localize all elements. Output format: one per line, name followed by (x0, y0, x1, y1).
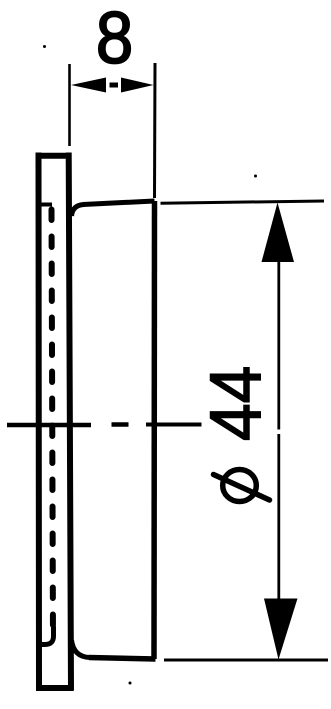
cap bottom edge (89, 658, 156, 660)
cap top fillet (72, 205, 85, 217)
diameter symbol circle (223, 470, 257, 502)
diameter symbol slash (214, 475, 270, 501)
flange outline (36, 153, 74, 691)
dashed center line vertical (flange) (52, 210, 54, 640)
dimension arrow right (8 dim) (121, 78, 154, 93)
centerline horizontal segment 1 (7, 423, 91, 428)
extension line left (8 dim) (68, 64, 71, 146)
dashed line bottom hook (42, 627, 54, 645)
dimension arrow up (dia 44) (262, 203, 295, 263)
centerline horizontal segment 2 (146, 423, 202, 427)
cap bottom fillet (72, 640, 91, 658)
svg-text:44: 44 (196, 366, 276, 441)
speck top left (43, 45, 46, 48)
dimension line vertical (dia 44) (277, 261, 280, 599)
extension line bottom (dia 44) (164, 659, 328, 662)
dimension arrow down (dia 44) (264, 599, 298, 660)
centerline dash (112, 422, 129, 427)
extension line right (8 dim) (153, 63, 157, 198)
speck bottom (129, 682, 132, 685)
cap top edge (83, 201, 155, 205)
svg-text:8: 8 (96, 0, 133, 79)
extension line top (dia 44) (161, 201, 325, 203)
cap right edge (151, 201, 157, 659)
dimension arrow left (8 dim) (71, 78, 106, 93)
hidden edge line top inside flange (36, 203, 52, 207)
speck right upper (254, 175, 257, 178)
dimension line stub (8 dim) (110, 83, 119, 88)
